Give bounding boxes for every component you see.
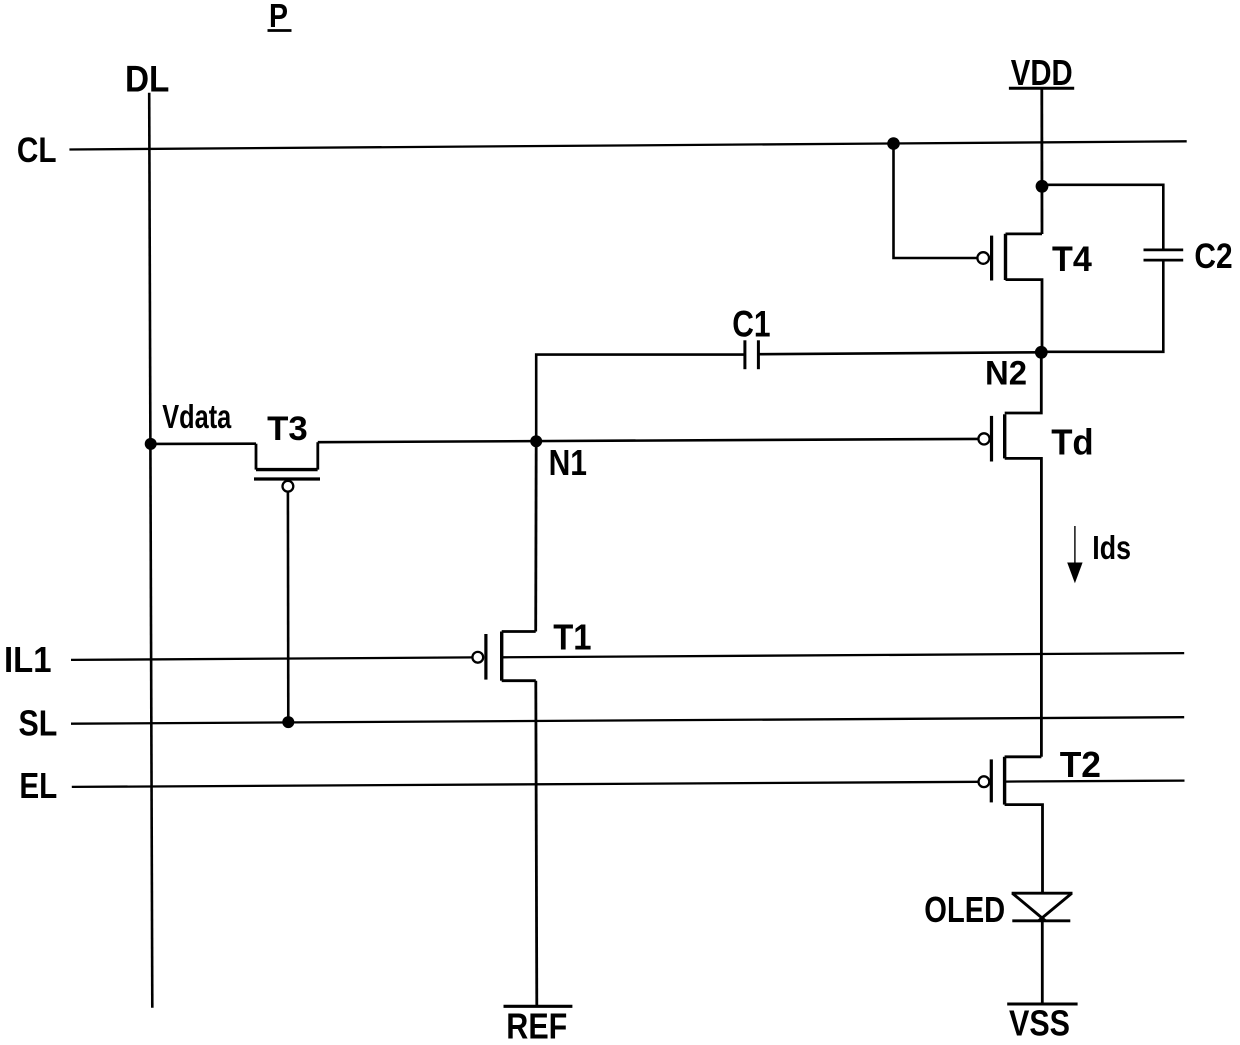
transistor T2 drain step	[1005, 755, 1042, 758]
svg-text:REF: REF	[506, 1006, 567, 1045]
wire OLED cathode down to VSS	[1041, 921, 1044, 1004]
svg-text:T3: T3	[267, 410, 308, 448]
transistor T2 channel bar	[1003, 757, 1006, 805]
transistor T4 gate bar	[990, 236, 993, 281]
svg-text:N2: N2	[985, 355, 1027, 393]
wire EL row line right of T2	[1005, 781, 1185, 782]
diode OLED anode triangle right side	[1039, 893, 1072, 920]
transistor T3 right terminal step	[316, 442, 319, 469]
svg-text:T2: T2	[1060, 744, 1101, 785]
node DL label	[125, 59, 169, 100]
svg-text:Td: Td	[1051, 422, 1094, 463]
transistor T4 source step	[1006, 280, 1043, 353]
transistor T4 gate bubble	[977, 252, 989, 264]
diode OLED anode triangle left side	[1012, 893, 1045, 920]
wire C1 row left segment with corner down to N1	[536, 355, 743, 442]
svg-text:EL: EL	[19, 765, 57, 806]
node REF label	[506, 1006, 567, 1045]
transistor T1 channel bar	[500, 632, 503, 681]
node N1 label	[549, 442, 587, 483]
svg-text:T1: T1	[553, 617, 591, 658]
svg-text:P: P	[269, 0, 288, 34]
REF terminal bar	[504, 1005, 573, 1008]
transistor T2 gate bar	[990, 759, 993, 802]
node CL label	[17, 131, 57, 170]
capacitor C2 top plate	[1144, 249, 1184, 252]
wire IL1 row line left of T1	[71, 657, 472, 660]
diode OLED label	[924, 889, 1005, 930]
node EL label	[19, 765, 57, 806]
transistor T2 label	[1060, 744, 1101, 785]
diode OLED anode triangle top edge	[1012, 892, 1073, 895]
node P underline	[268, 29, 292, 32]
transistor T3 label	[267, 410, 308, 448]
capacitor C1 label	[732, 304, 770, 345]
junction dot VDD x C2 branch	[1036, 180, 1049, 193]
wire T1 source down to REF	[536, 681, 537, 1007]
svg-text:Ids: Ids	[1092, 529, 1131, 566]
diode OLED cathode bar	[1012, 919, 1070, 922]
current arrow Ids head	[1067, 563, 1082, 584]
wire C2 top branch	[1042, 185, 1163, 249]
node N2 junction dot	[1035, 346, 1048, 359]
transistor T4 drain step	[1006, 232, 1043, 235]
transistor T4 channel bar	[1004, 234, 1007, 280]
transistor T1 label	[553, 617, 591, 658]
wire N1 down to T1 drain	[534, 441, 537, 631]
node VDD label	[1011, 52, 1073, 93]
svg-text:N1: N1	[549, 442, 587, 483]
node P label	[269, 0, 288, 34]
wire N1 row to Td gate	[318, 439, 979, 442]
transistor T3 gate bar	[254, 477, 320, 480]
transistor T4 label	[1052, 239, 1092, 279]
transistor T1 gate bar	[484, 634, 487, 680]
capacitor C1 right plate	[757, 340, 760, 369]
svg-text:IL1: IL1	[4, 639, 52, 680]
transistor Td label	[1051, 422, 1094, 463]
svg-text:T4: T4	[1052, 239, 1092, 279]
capacitor C2 label	[1194, 236, 1232, 276]
svg-text:CL: CL	[17, 131, 57, 170]
transistor Td gate bubble	[978, 433, 989, 444]
node SL label	[19, 703, 58, 744]
wire C1 to N2	[759, 352, 1041, 354]
wire Vdata row from DL to T3	[151, 442, 256, 445]
transistor Td channel bar	[1003, 414, 1006, 458]
capacitor C2 bottom plate	[1144, 259, 1184, 262]
transistor Td gate bar	[990, 416, 993, 462]
svg-text:Vdata: Vdata	[162, 399, 231, 436]
wire from CL down to T4 gate	[894, 144, 978, 258]
capacitor C1 left plate	[743, 340, 746, 369]
svg-text:DL: DL	[125, 59, 169, 100]
wire T3 gate down to SL	[287, 491, 290, 722]
wire DL vertical data line	[149, 93, 152, 1008]
transistor T1 source step	[502, 679, 536, 682]
svg-text:C1: C1	[732, 304, 770, 345]
transistor T3 left terminal step	[255, 444, 258, 470]
wire SL row line	[71, 717, 1184, 724]
wire VDD vertical lead down to T4 drain	[1040, 88, 1043, 234]
transistor T3 gate bubble	[283, 481, 294, 492]
junction dot CL x T4-gate wire	[887, 137, 900, 150]
transistor Td drain step from N2	[1005, 352, 1042, 413]
transistor T1 gate bubble	[472, 652, 483, 663]
wire IL1 row line right of T1	[502, 653, 1184, 657]
node Vdata label	[162, 399, 231, 436]
VSS terminal bar	[1007, 1003, 1077, 1006]
transistor T2 gate bubble	[979, 776, 990, 787]
transistor Td source step	[1005, 458, 1042, 756]
VDD terminal bar	[1009, 87, 1074, 90]
transistor T2 source step	[1005, 805, 1043, 894]
svg-text:C2: C2	[1194, 236, 1232, 276]
transistor T3 channel bar	[256, 468, 318, 471]
junction dot DL x Vdata wire	[145, 438, 157, 450]
wire C2 bottom lead to N2	[1047, 261, 1163, 352]
current arrow Ids label	[1092, 529, 1131, 566]
node IL1 label	[4, 639, 52, 680]
transistor T1 drain step	[502, 630, 536, 633]
node N1 junction dot	[530, 435, 542, 447]
wire CL horizontal control line	[69, 141, 1186, 149]
node VSS label	[1009, 1003, 1070, 1044]
junction dot T3 gate x SL	[282, 716, 294, 728]
svg-text:SL: SL	[19, 703, 58, 744]
svg-text:OLED: OLED	[924, 889, 1005, 930]
svg-text:VSS: VSS	[1009, 1003, 1070, 1044]
node N2 label	[985, 355, 1027, 393]
current arrow Ids shaft	[1074, 526, 1076, 563]
wire EL row line left of T2	[72, 782, 979, 787]
